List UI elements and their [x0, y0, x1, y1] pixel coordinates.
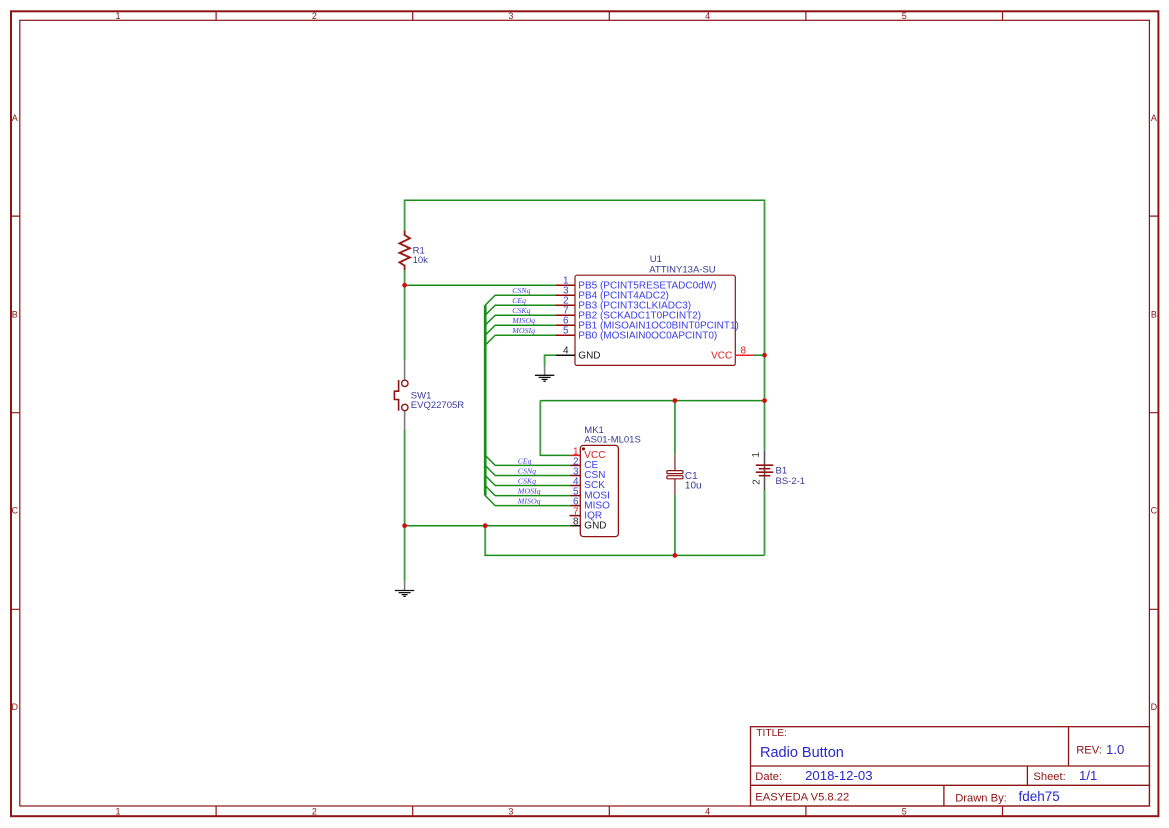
- svg-text:8: 8: [741, 346, 747, 357]
- capacitor C1: [667, 455, 702, 494]
- svg-text:C: C: [12, 506, 19, 516]
- IC U1 ATTINY13A-SU: [555, 254, 763, 365]
- wire B1 bottom vertical: [764, 490, 766, 555]
- ground (U1 GND): [535, 365, 554, 381]
- wire CEq to U1 pin 2: [485, 305, 555, 315]
- wire CSNq to MK1 pin 3: [485, 465, 570, 475]
- node VCC C1 junction: [673, 398, 678, 403]
- svg-text:TITLE:: TITLE:: [756, 728, 787, 739]
- wire MOSIq to MK1 pin 5: [485, 486, 570, 496]
- svg-text:U1: U1: [650, 254, 662, 265]
- svg-text:GND: GND: [578, 351, 600, 362]
- svg-text:CEq: CEq: [518, 457, 532, 465]
- wire MK1 VCC pin to VCC rail: [540, 454, 571, 456]
- switch SW1: [394, 360, 464, 430]
- svg-text:D: D: [1151, 702, 1158, 712]
- node VCC pin8 junction: [762, 353, 767, 358]
- svg-text:CEq: CEq: [512, 297, 526, 305]
- svg-text:5: 5: [563, 326, 569, 337]
- U1 pin 7 PB2: [555, 314, 575, 316]
- svg-text:BS-2-1: BS-2-1: [776, 476, 806, 487]
- svg-text:CSKq: CSKq: [518, 477, 537, 485]
- wire MISOq to U1 pin 6: [485, 325, 555, 335]
- svg-text:10u: 10u: [685, 480, 702, 491]
- svg-text:A: A: [12, 113, 18, 123]
- svg-text:2: 2: [312, 11, 317, 21]
- wire GND rail to MK1 GND: [405, 525, 571, 527]
- wire C1 bottom lead: [674, 495, 676, 556]
- svg-text:1.0: 1.0: [1106, 742, 1124, 757]
- svg-text:fdeh75: fdeh75: [1019, 789, 1060, 804]
- svg-text:A: A: [1151, 113, 1157, 123]
- svg-text:3: 3: [508, 807, 513, 817]
- wire MISOq to MK1 pin 6: [485, 496, 570, 506]
- svg-text:C: C: [1151, 506, 1158, 516]
- svg-text:D: D: [12, 702, 19, 712]
- svg-text:CSKq: CSKq: [512, 307, 531, 315]
- svg-text:Drawn By:: Drawn By:: [955, 793, 1007, 805]
- wire U1 GND pin to ground: [544, 354, 556, 356]
- node GND mid junction: [483, 523, 488, 528]
- svg-text:MOSIq: MOSIq: [517, 488, 541, 496]
- wire MOSIq to U1 pin 5: [485, 335, 555, 345]
- svg-text:5: 5: [902, 11, 907, 21]
- svg-text:4: 4: [563, 346, 569, 357]
- wire SW1 bottom to GND node: [404, 430, 406, 526]
- svg-text:Radio Button: Radio Button: [760, 745, 844, 761]
- wire GND bottom rail: [485, 554, 764, 556]
- wire left vertical to R1 top: [404, 200, 406, 231]
- node R1-SW1-U1pin1 junction: [402, 283, 407, 288]
- svg-text:REV:: REV:: [1076, 745, 1102, 757]
- battery B1: [751, 450, 805, 490]
- title block: [751, 727, 1150, 806]
- wire CSKq to U1 pin 7: [485, 315, 555, 325]
- svg-text:10k: 10k: [413, 255, 429, 266]
- module MK1 (AS01-ML01S): [570, 425, 641, 537]
- svg-text:CSNq: CSNq: [512, 287, 531, 295]
- svg-text:MISOq: MISOq: [511, 317, 535, 325]
- ground (left bottom): [395, 581, 414, 597]
- node GND left junction: [402, 523, 407, 528]
- svg-text:8: 8: [573, 517, 579, 528]
- wire R1 bottom to SW1 top: [404, 270, 406, 360]
- svg-text:3: 3: [508, 11, 513, 21]
- node VCC B1 junction: [762, 398, 767, 403]
- wire GND node to ground symbol: [404, 526, 406, 581]
- U1 pin 1 PB5: [555, 284, 575, 286]
- MK1 pin 3 CSN: [571, 475, 581, 477]
- svg-text:Date:: Date:: [755, 771, 782, 783]
- MK1 pin 1 marker: [582, 447, 585, 450]
- svg-text:B: B: [12, 309, 18, 319]
- svg-text:1: 1: [751, 452, 762, 458]
- svg-text:4: 4: [705, 807, 710, 817]
- svg-text:MOSIq: MOSIq: [511, 327, 535, 335]
- wire node A to U1 pin 1: [405, 284, 556, 286]
- MK1 pin 2 CE: [571, 464, 581, 466]
- U1 pin 8 VCC: [735, 354, 754, 356]
- svg-text:4: 4: [705, 11, 710, 21]
- wire GND drop: [484, 526, 486, 557]
- svg-text:B1: B1: [776, 465, 788, 476]
- wire B1 top vertical: [764, 200, 766, 450]
- wire C1 top lead: [674, 401, 676, 456]
- svg-text:MISOq: MISOq: [517, 498, 541, 506]
- resistor R1: [400, 231, 429, 270]
- svg-text:2018-12-03: 2018-12-03: [805, 768, 872, 783]
- U1 pin 3 PB4: [555, 294, 575, 296]
- U1 pin 6 PB1: [555, 324, 575, 326]
- wire bus vertical bundle: [484, 305, 487, 495]
- svg-text:2: 2: [312, 807, 317, 817]
- MK1 pin 6 MISO: [571, 505, 581, 507]
- svg-text:CSNq: CSNq: [518, 467, 537, 475]
- svg-text:EVQ22705R: EVQ22705R: [411, 400, 464, 411]
- wire CSNq to U1 pin 3: [485, 295, 555, 305]
- node GND C1 junction: [673, 553, 678, 558]
- wire VCC mid rail: [540, 400, 764, 402]
- wire CEq to MK1 pin 2: [485, 455, 570, 465]
- MK1 pin 7 IQR: [570, 515, 581, 517]
- MK1 pin 4 SCK: [571, 485, 581, 487]
- svg-text:VCC: VCC: [711, 351, 732, 362]
- wire VCC top rail: [404, 199, 766, 201]
- U1 pin 2 PB3: [555, 304, 575, 306]
- svg-text:Sheet:: Sheet:: [1033, 771, 1065, 783]
- svg-text:5: 5: [902, 807, 907, 817]
- svg-text:ATTINY13A-SU: ATTINY13A-SU: [649, 265, 715, 276]
- svg-text:1/1: 1/1: [1079, 768, 1097, 783]
- svg-text:1: 1: [115, 11, 120, 21]
- svg-text:B: B: [1151, 309, 1157, 319]
- wire CSKq to MK1 pin 4: [485, 475, 570, 485]
- U1 pin 4 GND: [556, 354, 575, 356]
- svg-text:EASYEDA V5.8.22: EASYEDA V5.8.22: [755, 791, 849, 803]
- svg-text:PB0 (MOSIAIN0OC0APCINT0): PB0 (MOSIAIN0OC0APCINT0): [578, 331, 717, 342]
- MK1 pin 5 MOSI: [571, 495, 581, 497]
- svg-text:1: 1: [115, 807, 120, 817]
- svg-text:AS01-ML01S: AS01-ML01S: [584, 434, 641, 445]
- svg-text:GND: GND: [584, 520, 606, 531]
- MK1 pin 8 GND: [571, 525, 581, 527]
- MK1 pin 1 VCC: [571, 454, 581, 456]
- svg-text:2: 2: [752, 479, 763, 485]
- U1 pin 5 PB0: [555, 334, 575, 336]
